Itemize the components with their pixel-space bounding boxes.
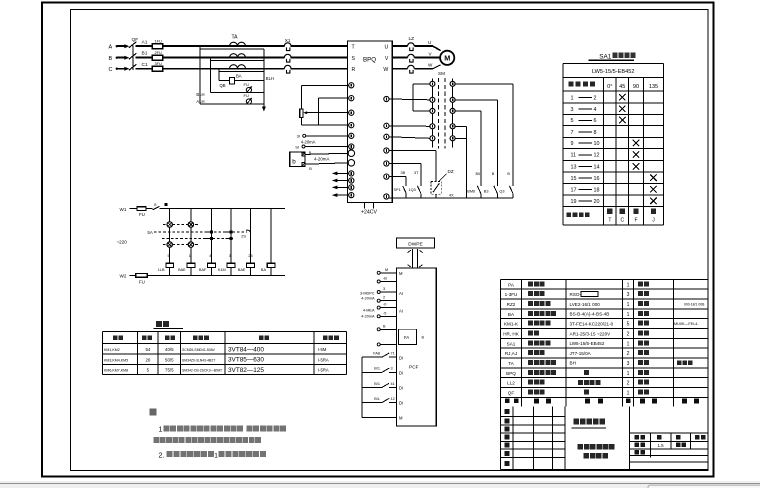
coil BAE bbox=[178, 254, 195, 275]
svg-text:T: T bbox=[608, 218, 611, 224]
contact BM6 bbox=[467, 172, 481, 198]
svg-text:M: M bbox=[385, 268, 388, 272]
svg-text:4X: 4X bbox=[449, 193, 454, 197]
wire BPQ to SM row5 bbox=[389, 137, 429, 139]
svg-text:M: M bbox=[444, 54, 450, 63]
svg-text:18: 18 bbox=[594, 187, 600, 193]
svg-text:BAE: BAE bbox=[178, 268, 186, 272]
svg-text:3: 3 bbox=[571, 107, 574, 113]
SA contact branch 5 bbox=[246, 209, 251, 264]
svg-text:B: B bbox=[309, 167, 312, 171]
SA linkage dashes through lamps top bbox=[163, 224, 198, 226]
svg-text:BPQ: BPQ bbox=[506, 371, 516, 376]
terminal connector X1 bbox=[284, 54, 291, 62]
svg-text:54: 54 bbox=[145, 347, 150, 352]
svg-text:-0: -0 bbox=[383, 303, 386, 307]
svg-text:BLH: BLH bbox=[196, 92, 204, 97]
svg-text:V: V bbox=[385, 56, 389, 62]
controller PCF bbox=[397, 268, 437, 426]
svg-text:KM1,KM2: KM1,KM2 bbox=[104, 348, 120, 352]
inverter BPQ bbox=[348, 41, 393, 203]
current transformer TA bbox=[230, 35, 246, 69]
svg-text:14: 14 bbox=[594, 165, 600, 171]
svg-text:QF: QF bbox=[132, 37, 139, 43]
svg-text:41: 41 bbox=[391, 382, 395, 386]
svg-text:2: 2 bbox=[627, 381, 630, 387]
SA linkage dashed shaft bbox=[147, 230, 247, 238]
svg-text:MU0K—FEL4-: MU0K—FEL4- bbox=[674, 322, 699, 326]
branch 6 wire bbox=[270, 209, 272, 264]
svg-text:M: M bbox=[399, 271, 403, 276]
svg-text:BA: BA bbox=[236, 74, 242, 79]
cam switch SM bbox=[432, 71, 452, 148]
svg-text:B/1: B/1 bbox=[374, 382, 380, 386]
svg-text:SM342-CB-2SCK3—B5AT: SM342-CB-2SCK3—B5AT bbox=[182, 369, 222, 373]
PCF terminal M bbox=[377, 268, 403, 276]
PCF analog input 1 bbox=[360, 287, 403, 302]
svg-text:QB: QB bbox=[220, 83, 226, 88]
svg-text:HR, HK: HR, HK bbox=[503, 332, 520, 337]
SM contact pair bbox=[430, 108, 455, 113]
BPQ right terminal circles bbox=[384, 96, 389, 199]
svg-text:1: 1 bbox=[189, 254, 191, 258]
svg-text:1: 1 bbox=[627, 282, 630, 288]
BOM header row bbox=[505, 399, 699, 404]
svg-text:FU: FU bbox=[244, 93, 249, 98]
svg-text:B: B bbox=[492, 172, 495, 176]
wire phase A bbox=[136, 45, 348, 47]
svg-text:4: 4 bbox=[209, 254, 211, 258]
svg-text:90: 90 bbox=[633, 84, 639, 90]
svg-text:+24CV: +24CV bbox=[361, 210, 378, 216]
terminal connector X1 bbox=[284, 65, 291, 73]
svg-text:U: U bbox=[428, 40, 431, 45]
svg-text:4-20mA: 4-20mA bbox=[314, 156, 329, 161]
svg-text:TA: TA bbox=[508, 361, 514, 366]
svg-text:KM6,KM7,KM8: KM6,KM7,KM8 bbox=[104, 369, 128, 373]
svg-text:20: 20 bbox=[145, 357, 150, 362]
fuse FU bottom bbox=[136, 273, 148, 284]
svg-text:3B: 3B bbox=[401, 171, 406, 175]
svg-text:I-5RA: I-5RA bbox=[318, 368, 329, 373]
svg-text:PCF: PCF bbox=[409, 365, 419, 371]
SA contact branch 3 bbox=[206, 209, 213, 264]
svg-text:1: 1 bbox=[571, 95, 574, 101]
svg-text:5: 5 bbox=[571, 118, 574, 124]
svg-text:B/L: B/L bbox=[374, 397, 380, 401]
svg-text:9: 9 bbox=[571, 141, 574, 147]
svg-text:3: 3 bbox=[627, 292, 630, 298]
svg-text:7: 7 bbox=[571, 130, 574, 136]
svg-text:B/1: B/1 bbox=[374, 367, 380, 371]
common bus wire bbox=[389, 193, 513, 198]
svg-text:3: 3 bbox=[627, 361, 630, 367]
DI common bus bbox=[362, 357, 403, 421]
svg-text:KM1-K: KM1-K bbox=[504, 322, 519, 327]
svg-text:B: B bbox=[507, 172, 510, 176]
svg-text:TA: TA bbox=[232, 35, 239, 41]
bill of materials table bbox=[501, 279, 709, 469]
svg-text:3: 3 bbox=[391, 367, 393, 371]
fuse 2FU bbox=[152, 50, 162, 60]
svg-text:B: B bbox=[109, 56, 113, 62]
svg-text:3B: 3B bbox=[475, 172, 480, 176]
svg-text:1-3FU: 1-3FU bbox=[505, 292, 518, 297]
svg-text:SP1: SP1 bbox=[394, 188, 401, 192]
svg-text:W2: W2 bbox=[120, 274, 127, 279]
svg-text:25: 25 bbox=[248, 254, 252, 258]
display unit DWPE bbox=[397, 238, 435, 248]
svg-text:W: W bbox=[428, 63, 433, 68]
svg-text:SI: SI bbox=[295, 144, 299, 149]
svg-text:2: 2 bbox=[627, 351, 630, 357]
svg-text:b: b bbox=[292, 158, 296, 165]
SM contact pair bbox=[430, 81, 455, 86]
svg-text:3T-FE14-KC220/21-0: 3T-FE14-KC220/21-0 bbox=[570, 321, 614, 326]
svg-text:BM6: BM6 bbox=[467, 189, 475, 193]
digital input contact B/1 bbox=[362, 367, 403, 376]
svg-text:-B: -B bbox=[383, 277, 387, 281]
svg-text:BAE: BAE bbox=[238, 268, 246, 272]
terminal connector X1 bbox=[284, 43, 291, 51]
svg-text:3VT82—125: 3VT82—125 bbox=[228, 367, 264, 374]
svg-text:DI: DI bbox=[399, 386, 403, 391]
svg-text:1.5: 1.5 bbox=[657, 443, 664, 448]
svg-text:A1: A1 bbox=[142, 40, 148, 46]
svg-text:QF: QF bbox=[508, 391, 515, 396]
svg-text:SCM26-SMD41-50AV: SCM26-SMD41-50AV bbox=[182, 348, 216, 352]
coil BA bbox=[261, 263, 275, 275]
svg-text:LW5-15/5-EB452: LW5-15/5-EB452 bbox=[592, 69, 635, 75]
svg-text:BH: BH bbox=[570, 361, 576, 366]
svg-text:DI: DI bbox=[399, 401, 403, 406]
svg-text:1: 1 bbox=[627, 302, 630, 308]
svg-text:6: 6 bbox=[594, 118, 597, 124]
svg-text:8: 8 bbox=[594, 130, 597, 136]
analog input 3I wire bbox=[297, 134, 349, 145]
contact B3 bbox=[484, 172, 498, 198]
table motor models bbox=[103, 321, 347, 375]
SM contact pair bbox=[430, 124, 455, 129]
svg-text:AI: AI bbox=[399, 291, 403, 296]
ground arrow bbox=[262, 107, 266, 112]
arrester FU on ALH bus bbox=[244, 93, 253, 104]
wiper jumper wires bbox=[303, 98, 349, 125]
svg-text:DI: DI bbox=[399, 355, 403, 360]
table SA1 switch positions bbox=[563, 53, 663, 225]
svg-text:FA8: FA8 bbox=[373, 352, 380, 356]
comm link cable bbox=[408, 249, 423, 268]
svg-text:2.: 2. bbox=[159, 452, 165, 459]
svg-text:JT7-15/0A: JT7-15/0A bbox=[570, 351, 592, 356]
svg-text:C1: C1 bbox=[142, 62, 148, 68]
svg-text:1: 1 bbox=[214, 452, 218, 459]
svg-text:A: A bbox=[109, 44, 113, 50]
svg-text:LVE2-16/1 000: LVE2-16/1 000 bbox=[570, 302, 601, 307]
svg-text:ALH: ALH bbox=[196, 99, 204, 104]
svg-text:1FU: 1FU bbox=[155, 39, 163, 44]
svg-text:40/5: 40/5 bbox=[165, 347, 174, 352]
digital input contact B/L bbox=[362, 397, 403, 406]
svg-text:45: 45 bbox=[619, 84, 625, 90]
indicator lamp branch 1 bbox=[167, 209, 172, 264]
transducer b bbox=[290, 151, 349, 171]
svg-text:5: 5 bbox=[168, 254, 170, 258]
digital input contact B/1 bbox=[362, 382, 403, 391]
node B supply entry bbox=[109, 56, 130, 62]
svg-text:AI: AI bbox=[399, 308, 403, 313]
svg-text:4-20mA: 4-20mA bbox=[361, 315, 375, 319]
svg-text:-5: -5 bbox=[383, 311, 386, 315]
arrester FU on BLH bus bbox=[244, 82, 253, 93]
svg-text:RJ,AJ: RJ,AJ bbox=[505, 351, 517, 356]
svg-text:F: F bbox=[634, 218, 637, 224]
disconnect contact bbox=[153, 203, 168, 210]
SM contact pair bbox=[430, 136, 455, 141]
indicator lamp branch 2 bbox=[188, 209, 193, 264]
svg-text:BAF: BAF bbox=[199, 268, 207, 272]
svg-text:4: 4 bbox=[594, 107, 597, 113]
svg-text:C: C bbox=[109, 67, 113, 73]
PCF analog input 2 bbox=[361, 303, 403, 319]
wire BPQ to SM row2 bbox=[389, 98, 429, 101]
svg-text:1Q3: 1Q3 bbox=[409, 188, 416, 192]
fuse 1FU bbox=[152, 39, 162, 49]
svg-text:BPQ: BPQ bbox=[363, 57, 376, 64]
svg-text:2S: 2S bbox=[241, 234, 246, 238]
coil 1LB bbox=[158, 254, 174, 275]
TA secondary wiring bbox=[200, 46, 264, 107]
svg-text:1: 1 bbox=[627, 391, 630, 397]
svg-text:X1: X1 bbox=[285, 38, 291, 43]
svg-text:3-MDPC: 3-MDPC bbox=[360, 291, 375, 295]
svg-text:SA1: SA1 bbox=[599, 53, 612, 60]
svg-text:AR1-25/3-15 ~220V: AR1-25/3-15 ~220V bbox=[570, 331, 612, 336]
svg-text:RSO-: RSO- bbox=[570, 292, 582, 297]
svg-text:75/5: 75/5 bbox=[165, 368, 174, 373]
svg-text:3VT85—630: 3VT85—630 bbox=[228, 357, 264, 364]
svg-text:20: 20 bbox=[594, 199, 600, 205]
svg-text:SA: SA bbox=[147, 230, 153, 235]
svg-text:15: 15 bbox=[571, 176, 577, 182]
thermal switch DZ bbox=[389, 151, 454, 199]
svg-text:DZ: DZ bbox=[448, 169, 454, 174]
reactor LZ terminals bbox=[392, 36, 414, 73]
SM right wires to verticals bbox=[455, 84, 513, 198]
wire BPQ to SM row4 bbox=[389, 125, 429, 128]
svg-text:LW5-15/5-EB452: LW5-15/5-EB452 bbox=[570, 341, 605, 346]
svg-text:RZ2: RZ2 bbox=[507, 302, 516, 307]
contact SP1 bbox=[389, 171, 406, 198]
svg-text:FA: FA bbox=[404, 335, 409, 340]
svg-text:12: 12 bbox=[594, 153, 600, 159]
svg-text:4-20mA: 4-20mA bbox=[361, 297, 375, 301]
svg-text:19: 19 bbox=[571, 199, 577, 205]
svg-text:2FU: 2FU bbox=[155, 50, 163, 55]
SA linkage dashes lower bbox=[162, 238, 233, 244]
SM contact pair bbox=[430, 97, 455, 102]
svg-text:50/5: 50/5 bbox=[165, 357, 174, 362]
digital output arrows bbox=[332, 172, 349, 198]
svg-text:FU: FU bbox=[139, 212, 145, 217]
svg-text:DI: DI bbox=[399, 370, 403, 375]
svg-text:3FU: 3FU bbox=[155, 61, 163, 66]
svg-text:1: 1 bbox=[627, 371, 630, 377]
circuit breaker QF bbox=[129, 37, 138, 70]
svg-text:FU: FU bbox=[244, 82, 249, 87]
SA contact branch 4 bbox=[225, 209, 232, 264]
svg-text:LL2: LL2 bbox=[507, 381, 515, 386]
svg-text:3: 3 bbox=[229, 254, 231, 258]
wire phase B bbox=[136, 57, 348, 59]
svg-text:B: B bbox=[309, 151, 312, 155]
svg-text:R: R bbox=[352, 67, 356, 73]
svg-text:W: W bbox=[383, 67, 388, 73]
analog input SI wire bbox=[295, 144, 349, 149]
svg-text:BS-B-4(A)-4-BS-4B: BS-B-4(A)-4-BS-4B bbox=[570, 312, 610, 317]
wire V bbox=[415, 51, 441, 57]
transducer BA bbox=[220, 74, 242, 88]
svg-text:1: 1 bbox=[159, 427, 163, 434]
node A supply entry bbox=[109, 44, 130, 50]
fault relay FA bbox=[377, 324, 424, 346]
wire U bbox=[415, 40, 441, 51]
svg-text:SM: SM bbox=[438, 71, 445, 76]
PCF terminal B bbox=[377, 277, 396, 284]
svg-text:W1: W1 bbox=[120, 207, 127, 212]
control bus W1 bbox=[120, 207, 285, 212]
svg-text:4-20mA: 4-20mA bbox=[301, 139, 316, 144]
svg-text:Q3: Q3 bbox=[499, 189, 504, 193]
svg-text:3VT84—400: 3VT84—400 bbox=[228, 346, 264, 353]
svg-text:000-18/1 00B: 000-18/1 00B bbox=[684, 303, 705, 307]
digital input contact FA8 bbox=[362, 352, 403, 361]
wire phase C bbox=[136, 68, 348, 70]
BPQ left terminal circles bbox=[348, 83, 355, 198]
SM left loop wire rows 1-3 bbox=[413, 84, 430, 111]
node C supply entry bbox=[109, 67, 130, 73]
svg-text:3T: 3T bbox=[414, 171, 419, 175]
svg-text:135: 135 bbox=[649, 84, 658, 90]
svg-text:SM34Z0-3LN43-4B2T: SM34Z0-3LN43-4B2T bbox=[182, 358, 215, 362]
svg-text:S: S bbox=[352, 56, 356, 62]
svg-text:10: 10 bbox=[594, 141, 600, 147]
svg-text:B1: B1 bbox=[142, 50, 148, 56]
svg-text:17: 17 bbox=[571, 187, 577, 193]
svg-text:BA: BA bbox=[261, 268, 267, 272]
fuse FU top bbox=[137, 207, 146, 217]
contact Q3 bbox=[499, 172, 513, 198]
svg-text:LZ: LZ bbox=[409, 36, 415, 42]
wire W bbox=[415, 63, 441, 69]
svg-text:I-5RA: I-5RA bbox=[318, 357, 329, 362]
svg-text:SA1: SA1 bbox=[507, 341, 516, 346]
svg-text:KM3,KM4,KM5: KM3,KM4,KM5 bbox=[104, 358, 128, 362]
svg-text:13: 13 bbox=[571, 165, 577, 171]
svg-text:2: 2 bbox=[383, 296, 385, 300]
svg-text:1: 1 bbox=[627, 312, 630, 318]
potentiometer RP bbox=[300, 85, 349, 125]
svg-text:0°: 0° bbox=[607, 84, 612, 90]
motor M bbox=[440, 51, 454, 65]
coil K1M bbox=[218, 254, 235, 275]
svg-text:71: 71 bbox=[391, 352, 395, 356]
svg-text:~220: ~220 bbox=[117, 239, 128, 244]
svg-text:M: M bbox=[399, 416, 403, 421]
svg-text:C: C bbox=[620, 218, 624, 224]
svg-text:K1M: K1M bbox=[218, 268, 226, 272]
svg-text:1LB: 1LB bbox=[158, 268, 165, 272]
svg-text:16: 16 bbox=[594, 176, 600, 182]
svg-text:11: 11 bbox=[571, 153, 577, 159]
svg-text:2: 2 bbox=[627, 332, 630, 338]
fuse 3FU bbox=[152, 61, 162, 71]
svg-text:PA: PA bbox=[508, 282, 515, 287]
control bus W2 bbox=[120, 274, 285, 279]
svg-text:I-5M: I-5M bbox=[318, 347, 327, 352]
svg-text:BLH: BLH bbox=[266, 76, 274, 81]
svg-text:B3: B3 bbox=[484, 189, 489, 193]
coil BAE bbox=[238, 254, 255, 275]
svg-text:12: 12 bbox=[391, 397, 395, 401]
svg-text:U: U bbox=[385, 44, 389, 50]
svg-text:3: 3 bbox=[383, 287, 385, 291]
svg-text:BA: BA bbox=[508, 312, 515, 317]
svg-text:FU: FU bbox=[139, 280, 145, 285]
notes text bbox=[150, 409, 287, 460]
BPQ +24V terminals bbox=[361, 203, 378, 216]
svg-text:5: 5 bbox=[627, 322, 630, 328]
svg-text:2: 2 bbox=[594, 95, 597, 101]
coil BAF bbox=[199, 254, 215, 275]
contact 1Q3 bbox=[389, 164, 421, 199]
svg-text:DWPE: DWPE bbox=[408, 241, 422, 247]
title block bbox=[501, 406, 709, 469]
svg-text:3I: 3I bbox=[297, 134, 300, 139]
svg-text:1: 1 bbox=[627, 341, 630, 347]
svg-text:4-MEA: 4-MEA bbox=[363, 308, 375, 312]
